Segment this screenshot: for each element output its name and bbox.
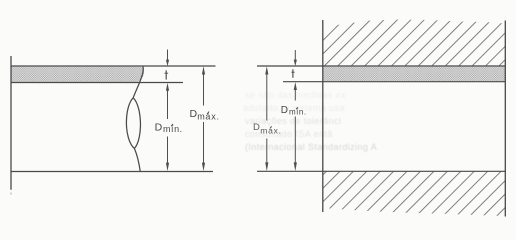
Dmax dimension line, left diagram [202,66,205,171]
break lens right arc [133,98,140,149]
svg-text:mín.: mín. [289,107,307,116]
shaft tolerance band fill [12,67,145,82]
svg-text:mín.: mín. [163,124,183,134]
Dmin label, right diagram [281,105,307,116]
t label, right diagram [291,69,294,78]
svg-text:D: D [253,122,260,133]
t dimension arrow above band, left diagram [166,50,169,67]
t dimension arrow above band, right diagram [294,50,297,66]
Dmax label, left diagram [190,108,220,121]
part right edge, right diagram [504,21,506,217]
shaft left edge line [10,56,12,190]
band bottom line / Dmin extension line, right [283,81,505,83]
shaft bottom line [11,171,214,173]
shaft left edge chain dot [10,193,12,195]
Dmin extension line (band bottom) [11,82,184,84]
upper hatched block [323,20,506,67]
break lens left arc [126,98,134,149]
Dmax label, right diagram [253,122,282,136]
lower hatched block [323,172,505,216]
part left edge, right diagram [322,20,324,212]
t label, left diagram [165,70,169,79]
ghost bleed-through text [243,90,377,152]
Dmax dimension line, right diagram [265,66,268,171]
band top line / Dmax extension line, right [257,65,505,67]
Dmin label, left diagram [155,122,183,134]
shaft break curve lower segment [134,149,140,172]
Dmin dimension line, left diagram [166,83,169,172]
Dmax extension line (band top) [11,65,216,67]
svg-text:(Internacional Standardizing A: (Internacional Standardizing A [245,142,377,152]
shaft break curve upper segment [133,66,143,98]
Dmin dimension line, right diagram [294,82,297,171]
svg-text:D: D [155,122,163,134]
hole bottom line / extension line, right [257,170,505,172]
hole tolerance band fill [323,67,505,82]
svg-text:D: D [281,105,288,116]
